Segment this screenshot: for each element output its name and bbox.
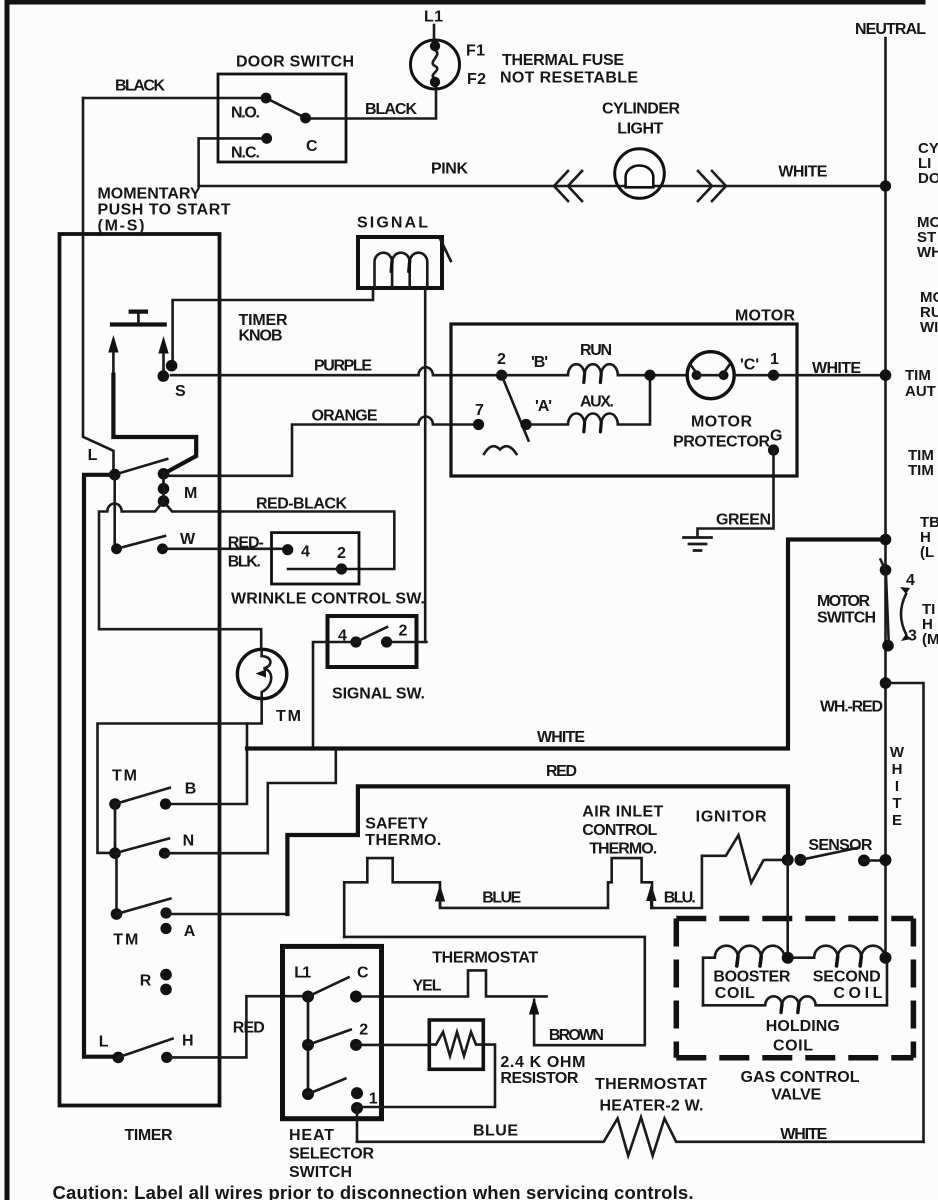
svg-text:RED: RED bbox=[546, 763, 577, 780]
svg-text:H: H bbox=[892, 761, 903, 778]
svg-text:N: N bbox=[183, 833, 195, 850]
svg-text:MOTOR: MOTOR bbox=[817, 593, 870, 610]
svg-text:AUT: AUT bbox=[905, 383, 936, 400]
svg-text:G: G bbox=[770, 428, 782, 445]
svg-text:1: 1 bbox=[369, 1091, 378, 1108]
svg-text:WH: WH bbox=[917, 244, 938, 261]
svg-text:AIR INLET: AIR INLET bbox=[582, 804, 663, 821]
svg-text:TIMER: TIMER bbox=[239, 312, 288, 329]
svg-text:THERMOSTAT: THERMOSTAT bbox=[595, 1076, 707, 1093]
svg-text:L1: L1 bbox=[294, 965, 311, 982]
svg-text:S: S bbox=[175, 383, 186, 400]
svg-text:MOMENTARY: MOMENTARY bbox=[98, 186, 201, 203]
svg-text:LIGHT: LIGHT bbox=[617, 121, 663, 138]
svg-text:WHITE: WHITE bbox=[780, 1126, 827, 1143]
svg-text:THERMOSTAT: THERMOSTAT bbox=[432, 950, 538, 967]
svg-text:HEAT: HEAT bbox=[289, 1127, 334, 1144]
svg-text:RED-BLACK: RED-BLACK bbox=[256, 496, 347, 513]
svg-text:THERMO.: THERMO. bbox=[365, 832, 441, 849]
svg-text:IGNITOR: IGNITOR bbox=[696, 809, 767, 826]
svg-text:A: A bbox=[184, 923, 196, 940]
svg-text:N.O.: N.O. bbox=[231, 105, 260, 122]
svg-text:2: 2 bbox=[399, 623, 408, 640]
svg-text:TM: TM bbox=[112, 768, 137, 785]
svg-text:HEATER-2 W.: HEATER-2 W. bbox=[600, 1098, 704, 1115]
svg-text:ORANGE: ORANGE bbox=[312, 408, 378, 425]
svg-text:4: 4 bbox=[338, 628, 347, 645]
svg-text:BLUE: BLUE bbox=[482, 890, 521, 907]
svg-text:DOOR SWITCH: DOOR SWITCH bbox=[236, 54, 354, 71]
svg-text:RESISTOR: RESISTOR bbox=[500, 1070, 578, 1087]
svg-text:RED: RED bbox=[233, 1020, 265, 1037]
svg-text:THERMAL FUSE: THERMAL FUSE bbox=[502, 52, 624, 69]
svg-text:2: 2 bbox=[337, 545, 346, 562]
svg-text:WI: WI bbox=[920, 319, 938, 336]
svg-text:KNOB: KNOB bbox=[239, 328, 283, 345]
svg-text:2.4 K OHM: 2.4 K OHM bbox=[500, 1054, 585, 1071]
svg-text:SAFETY: SAFETY bbox=[365, 816, 428, 833]
svg-text:N.C.: N.C. bbox=[231, 145, 260, 162]
svg-text:BOOSTER: BOOSTER bbox=[713, 969, 790, 986]
svg-text:BLACK: BLACK bbox=[115, 78, 165, 95]
svg-text:W: W bbox=[890, 744, 905, 761]
svg-text:B: B bbox=[185, 781, 197, 798]
svg-text:WHITE: WHITE bbox=[778, 164, 827, 181]
svg-text:CYLINDER: CYLINDER bbox=[602, 101, 680, 118]
svg-text:MOTOR: MOTOR bbox=[735, 308, 795, 325]
svg-text:YEL: YEL bbox=[413, 978, 442, 995]
svg-text:TIM: TIM bbox=[905, 367, 931, 384]
svg-text:GAS CONTROL: GAS CONTROL bbox=[741, 1069, 860, 1086]
svg-text:VALVE: VALVE bbox=[771, 1087, 821, 1104]
svg-text:WHITE: WHITE bbox=[812, 360, 861, 377]
svg-text:2: 2 bbox=[497, 351, 506, 368]
svg-text:GREEN: GREEN bbox=[716, 512, 771, 529]
svg-text:COIL: COIL bbox=[715, 985, 755, 1002]
svg-text:C: C bbox=[357, 965, 369, 982]
svg-text:HOLDING: HOLDING bbox=[766, 1018, 840, 1035]
svg-text:NEUTRAL: NEUTRAL bbox=[855, 21, 926, 38]
svg-text:F1: F1 bbox=[466, 43, 485, 60]
svg-text:C: C bbox=[306, 138, 318, 155]
svg-text:PROTECTOR: PROTECTOR bbox=[673, 434, 770, 451]
svg-text:RED-: RED- bbox=[228, 535, 264, 552]
svg-text:(M: (M bbox=[922, 631, 938, 648]
svg-text:SWITCH: SWITCH bbox=[289, 1164, 352, 1181]
svg-text:H: H bbox=[182, 1033, 194, 1050]
svg-text:MOTOR: MOTOR bbox=[691, 414, 752, 431]
svg-text:M: M bbox=[184, 485, 197, 502]
svg-text:(L: (L bbox=[920, 544, 934, 561]
svg-text:TM: TM bbox=[113, 932, 138, 949]
svg-text:NOT RESETABLE: NOT RESETABLE bbox=[500, 70, 638, 87]
svg-text:4: 4 bbox=[301, 544, 310, 561]
svg-text:'B': 'B' bbox=[531, 354, 548, 371]
svg-text:L: L bbox=[99, 1034, 109, 1051]
svg-text:'A': 'A' bbox=[535, 398, 552, 415]
svg-text:BLK.: BLK. bbox=[228, 554, 261, 571]
svg-text:WHITE: WHITE bbox=[537, 729, 585, 746]
svg-text:4: 4 bbox=[906, 572, 915, 589]
svg-text:TIM: TIM bbox=[908, 462, 934, 479]
svg-text:Caution: Label all wires prior: Caution: Label all wires prior to discon… bbox=[53, 1182, 694, 1200]
svg-text:E: E bbox=[892, 812, 902, 829]
svg-text:PUSH TO START: PUSH TO START bbox=[98, 202, 231, 219]
svg-text:TIMER: TIMER bbox=[125, 1127, 173, 1144]
svg-text:F2: F2 bbox=[467, 71, 486, 88]
svg-text:BLUE: BLUE bbox=[473, 1123, 518, 1140]
svg-text:SWITCH: SWITCH bbox=[817, 610, 876, 627]
svg-text:PURPLE: PURPLE bbox=[314, 358, 372, 375]
svg-text:SENSOR: SENSOR bbox=[808, 837, 872, 854]
svg-text:COIL: COIL bbox=[773, 1038, 813, 1055]
svg-text:DO: DO bbox=[918, 170, 938, 187]
svg-text:SECOND: SECOND bbox=[813, 969, 881, 986]
svg-text:WRINKLE CONTROL SW.: WRINKLE CONTROL SW. bbox=[231, 591, 425, 608]
svg-text:I: I bbox=[895, 778, 899, 795]
svg-text:WH.-RED: WH.-RED bbox=[820, 699, 883, 716]
svg-text:R: R bbox=[140, 973, 152, 990]
svg-text:BLU.: BLU. bbox=[664, 890, 696, 907]
svg-text:SIGNAL SW.: SIGNAL SW. bbox=[332, 686, 425, 703]
svg-text:THERMO.: THERMO. bbox=[589, 841, 657, 858]
svg-text:RUN: RUN bbox=[580, 342, 612, 359]
svg-text:CONTROL: CONTROL bbox=[582, 822, 657, 839]
svg-text:7: 7 bbox=[475, 402, 484, 419]
svg-text:COIL: COIL bbox=[833, 985, 882, 1002]
svg-text:AUX.: AUX. bbox=[580, 394, 614, 411]
svg-text:2: 2 bbox=[359, 1022, 368, 1039]
svg-text:BLACK: BLACK bbox=[365, 101, 417, 118]
svg-text:SELECTOR: SELECTOR bbox=[289, 1146, 374, 1163]
svg-text:TM: TM bbox=[276, 708, 301, 725]
svg-text:L1: L1 bbox=[424, 9, 443, 26]
svg-text:PINK: PINK bbox=[431, 161, 468, 178]
svg-text:L: L bbox=[88, 447, 98, 464]
svg-text:BROWN: BROWN bbox=[549, 1027, 604, 1044]
svg-text:1: 1 bbox=[770, 351, 779, 368]
svg-text:'C': 'C' bbox=[740, 357, 759, 374]
svg-text:3: 3 bbox=[908, 628, 917, 645]
svg-text:W: W bbox=[180, 531, 196, 548]
svg-text:T: T bbox=[892, 795, 901, 812]
